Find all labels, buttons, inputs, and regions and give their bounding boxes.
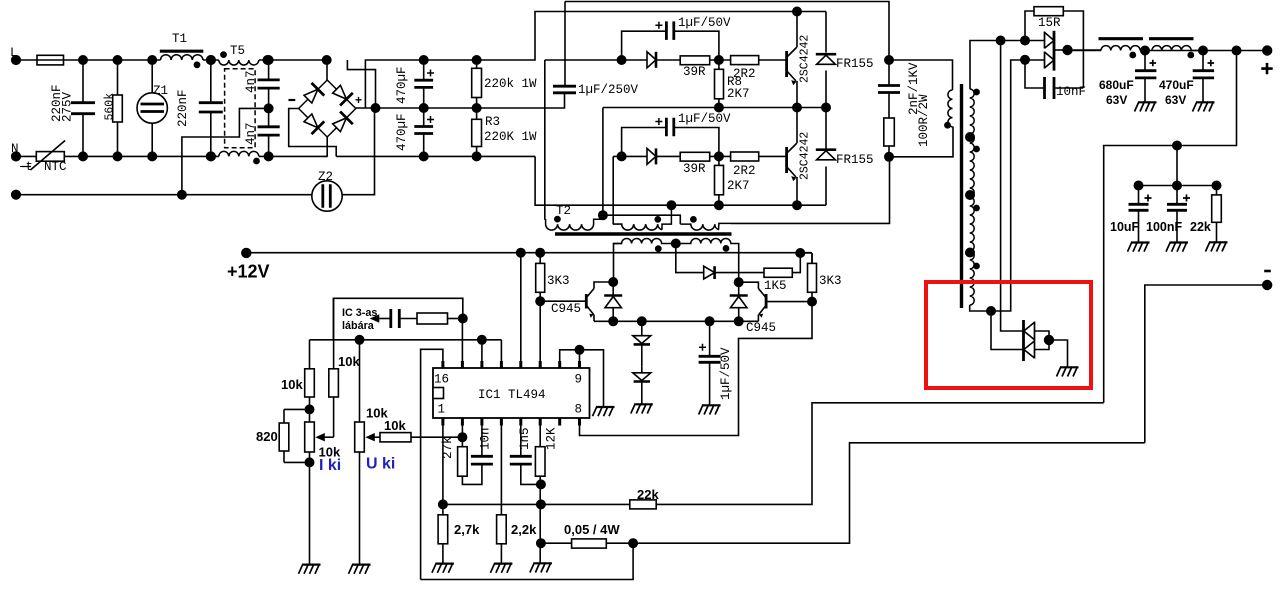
resistor 2K7 lower: [718, 156, 720, 205]
svg-text:1: 1: [438, 403, 446, 417]
transistor Q2 2SC4242: [785, 147, 788, 173]
wire top rail to halfbridge top: [424, 12, 826, 61]
bridge diode top-right: [330, 83, 353, 106]
svg-text:3K3: 3K3: [819, 274, 842, 288]
resistor 22k sense: [1216, 186, 1218, 195]
svg-text:22k: 22k: [1190, 220, 1211, 234]
svg-text:U ki: U ki: [366, 456, 395, 473]
svg-text:220k 1W: 220k 1W: [484, 77, 537, 91]
transformer T2 primary B: [613, 224, 662, 230]
svg-text:39R: 39R: [683, 65, 706, 79]
node secondary tap 2: [966, 191, 974, 199]
wire output sense branch: [1104, 51, 1237, 403]
transformer T5 coupling dashed box: [225, 69, 256, 148]
svg-text:2K7: 2K7: [727, 179, 750, 193]
ground mod diode: [1057, 367, 1079, 377]
varistor Z2: [312, 181, 342, 211]
resistor 12K: [535, 447, 545, 477]
pin 2: [461, 418, 464, 426]
svg-text:10nF: 10nF: [1056, 85, 1086, 99]
label + output: [1261, 63, 1272, 74]
wire tap line A down to red box: [1001, 41, 1024, 332]
node N terminal: [12, 152, 21, 161]
capacitor 4n7 lower: [268, 108, 270, 156]
wire T2 primary A feed: [544, 60, 547, 219]
potentiometer U ki 10k: [359, 340, 361, 422]
svg-text:10n: 10n: [479, 427, 493, 450]
svg-text:27k: 27k: [441, 436, 455, 459]
svg-text:8: 8: [575, 403, 583, 417]
wire feedback rail 22k: [443, 503, 630, 505]
resistor 560k: [117, 60, 119, 156]
diode upper halfbridge: [647, 52, 656, 68]
svg-text:4n7: 4n7: [244, 70, 258, 93]
arrow to IC pin3: [370, 314, 380, 323]
transformer main core: [960, 84, 963, 308]
wire shunt bottom loop to pin16 line: [421, 543, 633, 579]
svg-text:0,05 / 4W: 0,05 / 4W: [564, 522, 620, 537]
resistor 10k U ki wiper: [380, 433, 411, 442]
svg-text:10uF: 10uF: [1110, 220, 1140, 234]
svg-text:2K7: 2K7: [727, 87, 750, 101]
node doubler tap: [371, 104, 379, 112]
pin 11: [539, 361, 542, 368]
pin 9: [578, 361, 581, 368]
capacitor 470uF lower: [423, 108, 425, 156]
transformer T2 core: [555, 232, 732, 235]
svg-text:63V: 63V: [1165, 93, 1186, 107]
svg-text:2SC4242: 2SC4242: [799, 35, 812, 83]
svg-text:FR155: FR155: [836, 153, 874, 167]
wire secondary bottom: [970, 60, 1045, 311]
svg-text:275V: 275V: [61, 91, 75, 122]
wire secondary top to anode wire: [970, 41, 1045, 90]
transformer main primary: [948, 90, 953, 127]
resistor 39R upper: [680, 56, 710, 65]
wire earth rail: [16, 194, 312, 196]
svg-text:10k: 10k: [384, 418, 406, 433]
svg-text:NTC: NTC: [44, 160, 67, 174]
capacitor 10nF snubber: [1025, 60, 1083, 88]
resistor 10k b: [333, 298, 335, 369]
pin 15: [461, 361, 464, 368]
svg-text:470uF: 470uF: [1159, 78, 1194, 92]
wire N rail down to emitter rail: [535, 156, 826, 205]
ground driver cap: [699, 405, 721, 415]
node secondary tap 1: [966, 133, 974, 141]
node earth terminal: [12, 190, 21, 199]
svg-text:100R/2W: 100R/2W: [917, 94, 931, 147]
ground 470uF: [1193, 102, 1215, 112]
svg-text:IC1 TL494: IC1 TL494: [478, 388, 546, 402]
wire snubber top to primary top: [889, 60, 953, 90]
resistor 2R2 lower: [731, 152, 759, 161]
ground 12K column: [530, 563, 552, 573]
node upper cap left: [617, 56, 625, 64]
svg-text:1µF/50V: 1µF/50V: [678, 16, 731, 30]
wire L rail: [16, 60, 376, 108]
svg-text:63V: 63V: [1106, 93, 1127, 107]
pin 5: [519, 418, 522, 426]
wire shunt right to current sense line: [633, 443, 1145, 543]
ground series diodes: [631, 404, 653, 414]
wire +12V rail: [246, 252, 812, 254]
svg-text:2,2k: 2,2k: [511, 522, 537, 537]
resistor 10k a: [309, 340, 311, 369]
svg-text:T5: T5: [230, 44, 245, 58]
resistor 27k: [458, 447, 468, 477]
wire snubber bottom to primary bottom: [889, 127, 953, 157]
svg-text:22k: 22k: [637, 487, 659, 502]
capacitor 680uF/63V: [1141, 46, 1149, 54]
node pin2: [458, 433, 466, 441]
resistor 820: [284, 409, 310, 462]
svg-text:10k: 10k: [338, 354, 360, 369]
label bridge minus: [289, 99, 296, 101]
capacitor 1uF/50V driver: [709, 321, 711, 404]
wire T2 A-right to C-left: [603, 215, 680, 224]
node T2 A-right switch node: [599, 211, 607, 219]
pin 14: [480, 361, 483, 368]
transformer T5 top winding: [219, 60, 259, 65]
bridge diode bottom-left: [302, 111, 325, 134]
svg-text:IC 3-as: IC 3-as: [342, 307, 377, 319]
wire tap line B lower anode: [991, 311, 1024, 350]
ground 2,7k: [432, 563, 454, 573]
node 4n7 midpoint: [264, 104, 272, 112]
capacitor 10n: [471, 456, 493, 464]
bridge diode bottom-right: [330, 111, 353, 134]
transformer T5 bottom winding: [219, 151, 259, 156]
resistor 15R: [1025, 11, 1034, 41]
svg-text:N: N: [11, 142, 19, 156]
phase dots secondary: [974, 89, 979, 94]
pin 13: [500, 361, 503, 368]
capacitor 470uF upper: [423, 60, 425, 108]
wire driver emitter rail: [594, 320, 759, 322]
node earth junction: [178, 191, 186, 199]
diode clamp left: [612, 282, 614, 321]
svg-text:3K3: 3K3: [547, 274, 570, 288]
resistor IC3 series: [417, 313, 448, 324]
svg-text:12K: 12K: [545, 427, 559, 450]
svg-text:100nF: 100nF: [1146, 220, 1182, 234]
svg-text:R3: R3: [485, 115, 500, 129]
svg-text:10k: 10k: [281, 377, 303, 392]
resistor snubber 100R/2W: [884, 118, 895, 146]
transformer T2 primary A: [546, 219, 603, 230]
wire vref rail: [310, 339, 502, 341]
svg-text:16: 16: [434, 373, 449, 387]
pin 4: [500, 418, 503, 426]
transistor Q3 C945 left: [540, 300, 586, 302]
wire lower diode line: [613, 155, 730, 157]
capacitor snubber 2nF/1KV: [888, 60, 890, 118]
red highlight box: [926, 282, 1091, 388]
svg-text:T1: T1: [172, 32, 187, 46]
node T2 center tap: [672, 239, 680, 247]
wire center tap down: [676, 244, 704, 273]
capacitor 220nF (2nd): [210, 60, 212, 156]
resistor 2,7k: [438, 515, 448, 544]
transistor Q1 2SC4242: [785, 51, 788, 77]
ground 100nF: [1166, 242, 1188, 252]
resistor 1K5: [764, 268, 792, 277]
capacitor 1n5: [510, 456, 532, 464]
svg-text:1K5: 1K5: [764, 279, 787, 293]
capacitor 100nF: [1176, 186, 1178, 242]
wire N rail: [16, 155, 535, 157]
pin 3: [480, 418, 483, 426]
inductor output 1: [1099, 37, 1144, 40]
node minus terminal: [1263, 281, 1272, 290]
svg-text:2R2: 2R2: [733, 164, 756, 178]
svg-text:9: 9: [575, 373, 583, 387]
pin 1: [441, 418, 444, 426]
wire minus line: [1145, 285, 1267, 443]
svg-text:15R: 15R: [1038, 16, 1061, 30]
svg-text:Z2: Z2: [318, 170, 333, 184]
fuse F1: [37, 55, 64, 65]
transistor Q4 C945 right: [766, 301, 812, 303]
resistor 220k 1W: [476, 60, 478, 108]
svg-text:39R: 39R: [683, 162, 706, 176]
diode FR155 upper: [825, 12, 827, 108]
svg-text:L: L: [10, 46, 18, 60]
capacitor 1uF/250V: [564, 2, 566, 87]
resistor 39R lower: [680, 152, 710, 161]
ground 22k sense: [1206, 242, 1228, 252]
inductor output 2: [1149, 37, 1194, 40]
dual diode output: [1044, 32, 1046, 69]
svg-text:220nF: 220nF: [176, 89, 190, 127]
potentiometer I ki 10k: [305, 422, 315, 452]
node secondary tap 3: [966, 248, 974, 256]
wire bridge plus to mid rail: [356, 107, 424, 109]
ground U ki pot: [349, 564, 371, 574]
svg-text:560k: 560k: [104, 93, 117, 121]
svg-text:+12V: +12V: [227, 262, 270, 282]
ground I ki pot: [299, 564, 321, 574]
diode series A: [641, 321, 643, 367]
svg-text:1n5: 1n5: [518, 427, 532, 450]
wire S2 right down to right clamp node: [733, 244, 739, 283]
wire 1K5 top rail: [800, 253, 812, 263]
diode driver feed: [704, 266, 715, 279]
svg-text:1µF/50V: 1µF/50V: [719, 347, 733, 400]
svg-text:1µF/250V: 1µF/250V: [578, 83, 639, 97]
svg-text:T2: T2: [556, 204, 571, 218]
capacitor 220nF/275V: [82, 60, 84, 156]
wire IC3 compensation frame: [333, 298, 462, 340]
wire output to filter: [1068, 49, 1102, 52]
resistor 2R2 upper: [731, 56, 759, 65]
ground 10uF: [1128, 242, 1150, 252]
NTC: [36, 152, 64, 162]
pin 6: [539, 418, 542, 426]
pin 16: [441, 361, 444, 368]
pin 10: [558, 361, 561, 368]
svg-text:Z1: Z1: [153, 84, 168, 98]
bridge rectifier diamond: [299, 80, 356, 137]
svg-text:470µF: 470µF: [395, 113, 409, 151]
transformer main secondary: [970, 89, 975, 305]
node lower cap left: [617, 152, 625, 160]
wire sense cap rail: [1139, 146, 1217, 186]
capacitor 1uF/50V upper: [622, 31, 719, 60]
svg-text:I ki: I ki: [319, 457, 341, 474]
pin 7: [558, 418, 561, 426]
pin 8: [578, 418, 581, 426]
diode lower halfbridge: [647, 148, 656, 164]
svg-text:220K 1W: 220K 1W: [484, 130, 537, 144]
transformer T2 primary C: [680, 223, 731, 230]
capacitor 4n7 upper: [268, 60, 270, 108]
node output branch: [1232, 46, 1240, 54]
diode FR155 lower: [825, 108, 827, 206]
capacitor 1uF/50V lower: [622, 128, 719, 157]
svg-text:4n7: 4n7: [244, 122, 258, 145]
resistor R8 2K7 upper: [718, 60, 720, 108]
svg-text:1µF/50V: 1µF/50V: [678, 112, 731, 126]
node L terminal: [12, 56, 21, 65]
svg-text:FR155: FR155: [836, 57, 874, 71]
svg-text:C945: C945: [551, 302, 581, 316]
wire 4n7 midpoint to earth: [182, 108, 269, 194]
node top anode junctions: [996, 36, 1004, 44]
capacitor 470uF/63V output: [1199, 46, 1207, 54]
svg-text:+: +: [355, 93, 362, 107]
transformer T2 secondary S2: [676, 239, 733, 244]
svg-text:C945: C945: [746, 321, 776, 335]
ground pins 9,10: [593, 406, 615, 416]
capacitor 10uF: [1138, 186, 1140, 242]
bridge diode top-left: [302, 83, 325, 106]
inductor T1: [160, 50, 204, 53]
wire S1 left to clamp node: [614, 244, 622, 283]
wire pins 9,10 to ground: [580, 350, 604, 406]
svg-text:lábára: lábára: [342, 320, 375, 332]
label - output: [1264, 270, 1271, 273]
resistor R3 220K 1W: [476, 108, 478, 156]
wire mid rail to 1uF250V: [424, 93, 565, 108]
wire bridge minus to bottom rail: [289, 109, 337, 157]
wire mid rail (switch node): [603, 107, 826, 109]
wire plus riser to top rail: [365, 60, 423, 108]
wire top-top rail: [565, 2, 889, 61]
diode clamp right: [738, 282, 740, 321]
resistor 0,05/4W shunt: [572, 539, 607, 548]
resistor 22k feedback: [630, 500, 656, 509]
svg-text:470µF: 470µF: [395, 66, 409, 104]
IC1 TL494 body: [433, 368, 590, 418]
svg-text:820: 820: [256, 429, 278, 444]
dual diode red box mod: [1022, 320, 1025, 361]
svg-text:-t: -t: [18, 160, 33, 174]
transformer T2 secondary S1: [614, 239, 676, 244]
varistor Z1: [151, 60, 153, 156]
diode series B: [641, 367, 643, 404]
resistor 3K3 right: [811, 253, 813, 302]
svg-text:680uF: 680uF: [1099, 78, 1134, 92]
resistor 2,2k: [497, 515, 507, 544]
ground 680uF: [1135, 102, 1157, 112]
node left clamp top: [609, 278, 617, 286]
resistor 3K3 left: [539, 253, 541, 301]
svg-text:2SC4242: 2SC4242: [799, 132, 812, 180]
node + terminal: [1263, 46, 1272, 55]
wire mod diode to ground: [1049, 340, 1068, 367]
pin 12: [519, 361, 522, 368]
node right clamp top: [735, 278, 743, 286]
svg-text:2,7k: 2,7k: [454, 522, 480, 537]
wire upper diode line: [545, 59, 647, 61]
capacitor IC3 series: [391, 309, 400, 328]
wire T2 C-right to snubber bottom: [731, 157, 890, 224]
ground 2,2k: [490, 563, 512, 573]
